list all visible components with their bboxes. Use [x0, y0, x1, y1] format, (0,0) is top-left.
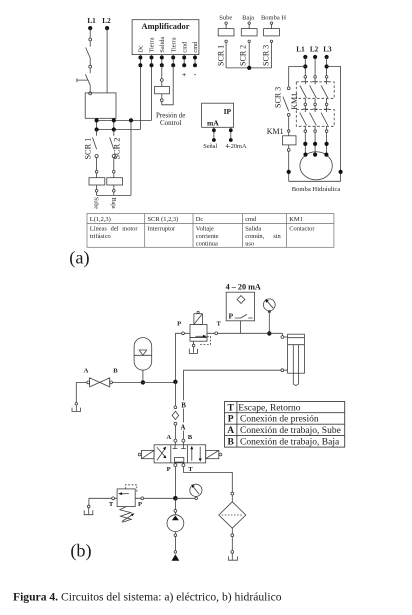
svg-text:T: T	[216, 321, 221, 328]
relief adjust arrow	[122, 515, 132, 522]
svg-text:Contactor: Contactor	[289, 226, 315, 233]
gauge G2	[190, 484, 202, 496]
left cell crossed arrows	[157, 447, 165, 460]
svg-text:SCR (1,2,3): SCR (1,2,3)	[148, 216, 179, 223]
svg-text:SCR 1: SCR 1	[216, 45, 225, 66]
SCR2 gate block	[107, 178, 123, 185]
SCR1 block	[218, 29, 234, 36]
svg-text:B: B	[181, 402, 186, 409]
svg-text:corriente: corriente	[196, 233, 219, 240]
node pin dots row1	[138, 56, 197, 60]
wire	[174, 532, 176, 534]
wire	[96, 185, 98, 190]
wire	[288, 132, 290, 136]
wire gauge stem	[268, 311, 270, 334]
wire	[113, 173, 115, 178]
svg-text:-: -	[194, 70, 197, 79]
wire	[89, 85, 91, 92]
motor Bomba Hidraulica	[300, 152, 332, 180]
svg-text:Conexión de presión: Conexión de presión	[240, 415, 319, 425]
switch S1 top contact	[89, 38, 92, 41]
junction L1 terminal	[88, 26, 92, 30]
svg-text:Interruptor: Interruptor	[148, 226, 177, 233]
svg-text:B: B	[113, 367, 118, 374]
terminal gauge2	[195, 497, 198, 500]
node pin dots row2	[138, 63, 197, 67]
node SCR bus junction	[247, 66, 251, 70]
node bus2 dots	[95, 127, 116, 131]
suction triangle	[172, 554, 180, 561]
wire drain stem	[193, 347, 195, 353]
contactor KM1 pole1	[300, 76, 308, 155]
wire to Tierra pin	[162, 65, 173, 105]
wire	[113, 185, 115, 190]
svg-text:Dc: Dc	[138, 45, 145, 53]
wire bus1 riser to Tierra pin	[151, 65, 153, 120]
check valve diamond	[172, 411, 179, 419]
svg-text:Salida: Salida	[245, 226, 261, 233]
svg-text:cmd: cmd	[192, 41, 199, 53]
wire bus2 riser to Dc pin	[139, 65, 141, 129]
shutoff valve terminals	[87, 381, 90, 384]
check valve bottom terminal	[174, 422, 177, 425]
svg-text:Conexión de trabajo, Sube: Conexión de trabajo, Sube	[240, 426, 341, 436]
svg-text:KM1: KM1	[267, 127, 284, 136]
svg-text:P: P	[229, 311, 234, 320]
wire	[284, 336, 288, 338]
dashed frame KM1 lower	[296, 110, 334, 127]
wire	[96, 192, 98, 195]
wire SCR3 down	[271, 43, 273, 68]
SCR1 gate block	[89, 178, 105, 185]
svg-text:T: T	[109, 501, 114, 508]
wire	[248, 24, 250, 28]
coil KM1 box	[283, 136, 297, 145]
svg-text:Bomba H: Bomba H	[261, 15, 286, 22]
svg-text:(b): (b)	[70, 541, 91, 562]
junction dots phase tops	[303, 55, 329, 59]
wire	[96, 173, 98, 178]
svg-text:Escape, Retorno: Escape, Retorno	[238, 403, 301, 413]
wire coil to bus	[288, 151, 290, 181]
pump	[167, 515, 184, 532]
filter diamond	[219, 502, 246, 528]
wire tank stem	[231, 553, 233, 560]
terminal coil bottom	[287, 149, 290, 152]
svg-text:Sube: Sube	[93, 197, 99, 209]
op-amp module Amplificador	[132, 20, 199, 55]
table legend part a	[87, 214, 334, 248]
terminal	[174, 534, 177, 537]
switch S2 blade	[85, 74, 90, 85]
terminal drain	[192, 344, 195, 347]
svg-text:+: +	[182, 70, 186, 79]
terminal	[95, 190, 98, 193]
filter mesh dashed	[222, 514, 244, 516]
wire to port A	[174, 425, 176, 439]
wire	[231, 537, 233, 551]
switch SCR2 contact	[112, 155, 115, 158]
terminal	[160, 79, 163, 82]
solenoid right	[206, 450, 219, 458]
wire	[96, 158, 98, 171]
wire pin stubs	[140, 55, 195, 66]
wire	[113, 158, 115, 171]
wire SCR1 down	[225, 43, 227, 68]
svg-text:Presión de: Presión de	[156, 111, 185, 119]
wire IP terminal stubs	[214, 127, 231, 138]
wire	[161, 81, 163, 86]
wire	[174, 498, 176, 509]
node IP terminals	[212, 128, 233, 142]
cylinder rod	[293, 345, 298, 386]
terminal	[113, 190, 116, 193]
svg-text:L1: L1	[296, 46, 305, 54]
node bus1 dots	[95, 118, 134, 122]
svg-text:Dc: Dc	[196, 216, 204, 223]
terminal	[113, 170, 116, 173]
tank T1	[72, 408, 81, 412]
terminal	[231, 534, 234, 537]
svg-text:Bomba Hidráulica: Bomba Hidráulica	[292, 186, 341, 193]
wire P line corner down	[281, 333, 283, 335]
switch SCR3 blade	[283, 97, 289, 112]
SCR3 block	[264, 29, 280, 36]
svg-text:P: P	[138, 501, 142, 508]
node accumulator junction	[141, 380, 145, 384]
svg-text:A: A	[166, 434, 171, 441]
wire L2 down	[106, 28, 108, 93]
rectifier input terminal	[89, 92, 92, 95]
center cell blocked ports	[173, 445, 186, 449]
svg-text:T: T	[188, 466, 193, 473]
valve drain wire	[193, 341, 195, 344]
port P terminal	[174, 464, 177, 467]
wire T return	[183, 467, 232, 493]
svg-text:SCR 1: SCR 1	[83, 138, 92, 160]
valve flow arrow	[196, 335, 204, 337]
svg-text:Figura 4. Circuitos del sistem: Figura 4. Circuitos del sistema: a) eléc…	[13, 590, 282, 603]
controller switch glyph	[235, 314, 253, 318]
terminal SCR1 cmd	[225, 22, 227, 24]
svg-text:(a): (a)	[69, 247, 89, 268]
switch SCR3 contact top	[287, 87, 290, 90]
contactor KM1 pole3	[321, 76, 329, 155]
wire relief line	[89, 497, 173, 499]
potentiometer Presion de Control	[155, 87, 170, 94]
terminal cylinder top port	[281, 336, 284, 339]
svg-text:SCR 2: SCR 2	[113, 138, 122, 160]
svg-text:A: A	[180, 424, 185, 431]
wire L1 down	[89, 28, 91, 38]
svg-text:SCR 2: SCR 2	[238, 45, 247, 66]
wire A-B supply line	[76, 381, 175, 383]
terminal SCR3 cmd	[270, 22, 272, 24]
wire gauge2 branch	[175, 497, 194, 499]
wire SCR common bus	[226, 67, 271, 69]
tank T2	[84, 510, 93, 514]
port B terminal	[182, 439, 185, 442]
switch SCR1 blade	[93, 137, 97, 149]
wire left drop to tank	[75, 382, 77, 402]
wire rectifier output stubs	[97, 118, 114, 129]
terminal valve T side	[215, 332, 218, 335]
svg-text:Baja: Baja	[242, 15, 254, 22]
terminal	[75, 403, 77, 405]
wire	[288, 116, 290, 130]
svg-text:Señal: Señal	[203, 143, 217, 150]
svg-text:Control: Control	[160, 119, 181, 127]
gauge G1	[263, 299, 275, 311]
svg-text:KM1: KM1	[289, 216, 303, 223]
svg-text:P: P	[167, 466, 171, 473]
wire branch to right return	[327, 67, 341, 182]
svg-text:Líneas del motor: Líneas del motor	[90, 226, 139, 233]
svg-text:P: P	[177, 321, 181, 328]
rectifier box	[85, 93, 116, 118]
node pump junction	[173, 496, 178, 501]
svg-text:B: B	[228, 438, 235, 448]
dashed frame KM1 upper	[296, 82, 334, 98]
cylinder body	[288, 334, 305, 373]
proportional valve body	[190, 324, 207, 337]
cylinder piston	[288, 344, 305, 346]
controller box 4-20mA	[226, 292, 254, 321]
svg-text:común,sin: común,sin	[245, 233, 281, 240]
contactor KM1 pole2	[310, 76, 318, 155]
svg-text:trifásico: trifásico	[90, 233, 111, 240]
shutoff valve bowtie	[90, 378, 110, 387]
svg-text:Baja: Baja	[110, 198, 116, 209]
wire SCR2 down	[248, 43, 250, 68]
relief spring	[120, 507, 132, 523]
relief valve arrow	[122, 493, 129, 495]
relief left terminal	[112, 497, 115, 500]
svg-text:L1: L1	[87, 17, 96, 25]
terminal	[248, 40, 250, 42]
node coil bus dot	[287, 170, 291, 174]
wire	[271, 24, 273, 28]
svg-text:cmd: cmd	[181, 41, 188, 53]
wire	[231, 528, 233, 534]
wire SCR2 branch	[113, 130, 115, 136]
wire	[113, 192, 115, 195]
wire bus1	[97, 119, 152, 121]
svg-text:L2: L2	[310, 46, 319, 54]
switch S1 blade	[86, 48, 91, 59]
svg-text:Tierra: Tierra	[170, 37, 177, 52]
right cell arrows	[192, 447, 200, 461]
relief valve box	[117, 489, 135, 507]
svg-text:A: A	[227, 426, 234, 436]
svg-text:SCR 3: SCR 3	[273, 87, 282, 108]
wire B-line vertical	[182, 370, 184, 439]
wire B-line	[183, 369, 287, 371]
wire controller to P line	[239, 321, 241, 334]
junction L2 terminal	[105, 26, 109, 30]
switch SCR3 contact bottom	[287, 113, 290, 116]
svg-text:A: A	[84, 367, 89, 374]
svg-text:continua: continua	[196, 240, 218, 247]
wire	[89, 58, 91, 65]
terminal cylinder bottom port	[281, 369, 284, 372]
port T terminal	[182, 464, 185, 467]
terminal	[95, 170, 98, 173]
solenoid on valve	[194, 314, 203, 325]
wire	[288, 145, 290, 149]
wire	[89, 68, 91, 73]
svg-text:Salida: Salida	[159, 37, 166, 53]
tank T4	[229, 556, 238, 560]
wire	[174, 537, 176, 551]
svg-text:T: T	[228, 403, 235, 413]
SCR2 block	[241, 29, 257, 36]
check valve top terminal	[174, 406, 177, 409]
terminal	[231, 551, 234, 554]
svg-text:SCR 3: SCR 3	[262, 45, 271, 66]
node right return dot	[339, 170, 343, 174]
wire branch to coil circuit	[289, 67, 306, 87]
switch SCR2 blade	[110, 137, 114, 149]
wire bottom bus motor	[289, 180, 341, 182]
svg-text:Conexión de trabajo, Baja: Conexión de trabajo, Baja	[240, 438, 340, 448]
svg-text:P: P	[228, 415, 234, 425]
wire A-line vertical	[174, 333, 176, 381]
table legend part b	[225, 402, 345, 448]
wire	[231, 495, 233, 502]
wire	[161, 94, 163, 99]
relief right terminal	[141, 497, 144, 500]
wire P line segments	[175, 332, 282, 334]
svg-text:L3: L3	[323, 46, 332, 54]
switch S2 manual actuator	[77, 78, 88, 82]
filter top terminal	[231, 492, 234, 495]
terminal	[160, 99, 163, 102]
tank T3	[189, 349, 197, 354]
wire	[89, 41, 91, 47]
svg-text:L(1,2,3): L(1,2,3)	[90, 216, 111, 223]
svg-text:uso: uso	[245, 240, 254, 247]
wire	[225, 24, 227, 28]
svg-text:Sube: Sube	[219, 15, 232, 22]
port stubs bottom	[175, 462, 183, 465]
wire tank stem	[75, 405, 77, 411]
terminal P line left	[182, 332, 185, 335]
controller diamond symbol	[237, 296, 245, 304]
switch S2 top contact	[89, 65, 92, 68]
dashed pilot relief	[126, 485, 137, 493]
svg-text:cmd: cmd	[245, 216, 257, 223]
svg-text:Tierra: Tierra	[149, 37, 156, 52]
solenoid left	[142, 450, 155, 458]
dashed pilot line	[199, 336, 210, 344]
wire return descender	[130, 120, 132, 195]
port A terminal	[174, 439, 177, 442]
junction branch dots	[303, 64, 329, 68]
wire P port down	[174, 467, 176, 497]
terminal	[174, 551, 177, 554]
node gauge junction	[267, 331, 271, 335]
svg-text:IP: IP	[224, 107, 232, 116]
wire phase drops	[305, 57, 326, 76]
terminal SCR2 cmd	[248, 22, 250, 24]
directional valve body	[154, 445, 206, 463]
svg-text:mA: mA	[207, 119, 219, 128]
wire	[174, 512, 176, 515]
svg-text:4-20mA: 4-20mA	[226, 143, 247, 150]
svg-text:KM1: KM1	[290, 93, 299, 110]
terminal	[225, 40, 227, 42]
terminal	[270, 40, 272, 42]
gauge G1 needle	[267, 301, 273, 308]
terminal pump top	[174, 510, 177, 513]
svg-text:L2: L2	[102, 17, 111, 25]
svg-text:B: B	[188, 434, 193, 441]
wire check valve line	[174, 382, 176, 406]
transducer U-IP box	[202, 103, 234, 127]
terminal coil top	[288, 130, 290, 132]
wire accumulator stem	[142, 370, 144, 382]
accumulator	[134, 338, 152, 371]
wire SCR1 branch	[96, 130, 98, 136]
svg-text:4 – 20 mA: 4 – 20 mA	[226, 282, 261, 291]
switch SCR1 contact	[95, 155, 98, 158]
port stubs top	[175, 442, 183, 445]
svg-text:Voltaje: Voltaje	[196, 226, 214, 233]
terminal	[87, 505, 90, 508]
svg-text:Amplificador: Amplificador	[142, 22, 190, 31]
node A-line junction	[173, 380, 177, 384]
wire bus2	[97, 129, 141, 131]
wire bottom bus	[97, 194, 131, 196]
node motor terminal dots	[303, 153, 328, 157]
wire Salida down	[161, 65, 163, 78]
node motor cable dots	[303, 142, 329, 146]
wire relief T to tank	[88, 498, 90, 505]
wire gauge2 stem	[195, 495, 197, 498]
wire tank stem	[88, 508, 90, 515]
